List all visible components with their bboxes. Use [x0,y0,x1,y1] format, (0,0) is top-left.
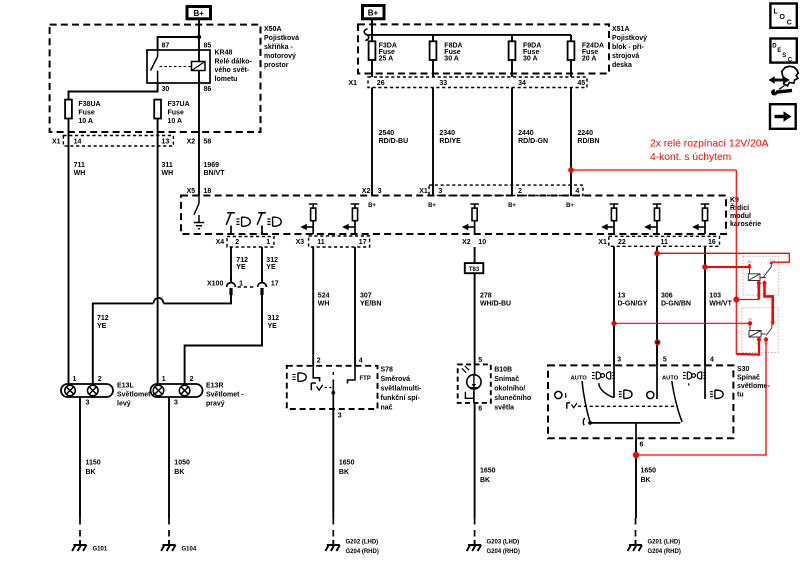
svg-text:1: 1 [162,376,166,383]
svg-text:B+: B+ [368,9,379,18]
E13L pin labels [73,376,102,406]
E13R pin labels [162,376,194,406]
wire F37UA to connector X1 pin 13 [157,119,159,147]
svg-text:58: 58 [204,139,212,146]
fuse F9DA 30A [509,41,542,62]
svg-text:BK: BK [339,469,349,476]
svg-text:G204 (RHD): G204 (RHD) [487,549,520,555]
wire 307 YE/BN from X3 17 to S78 pin 4 [354,247,356,366]
red wire 2240 tap to vertical feeder [571,169,736,171]
wire 2540 RD/D-BU [371,88,373,197]
fuse F38UA [65,100,100,125]
svg-text:311: 311 [162,162,173,169]
S30 left OFF position O [555,391,562,398]
relay KX2 internals [748,318,776,346]
svg-text:4-kont. s úchytem: 4-kont. s úchytem [650,152,731,163]
svg-text:6: 6 [640,442,644,449]
svg-text:F38UA: F38UA [78,101,100,108]
S30 wire from pin 3 down [613,365,615,397]
wire 311 WH [157,146,159,384]
svg-text:B+: B+ [508,203,516,209]
multifunction switch S78 enclosure [287,366,378,409]
wire 1050 BK from E13R [168,397,170,518]
relay KX1 housing [743,256,779,295]
svg-text:KR48: KR48 [215,50,233,57]
svg-text:slunečního: slunečního [494,395,531,402]
K9 top pin labels X2 3 / X1 3 / 2 / 4 [362,188,580,195]
svg-text:86: 86 [204,86,212,93]
svg-text:3: 3 [378,188,382,195]
svg-text:2: 2 [317,358,321,365]
S30 left main blade (AUTO) [582,381,590,422]
wire pin 86 down [198,71,200,147]
svg-text:Fuse: Fuse [168,109,184,116]
dashed link between X100 halves [238,286,257,288]
svg-text:levý: levý [117,401,131,408]
wire B+ to bus [371,19,373,35]
ground symbol inside K9 [194,215,204,229]
svg-text:2: 2 [98,376,102,383]
svg-text:22: 22 [618,239,626,246]
wire 2440 RD/D-GN [511,88,513,197]
wire 524 WH from X3 11 to S78 pin 2 [312,247,314,366]
svg-text:312: 312 [266,257,278,264]
svg-text:F37UA: F37UA [168,101,190,108]
svg-text:Směrová: Směrová [381,376,411,383]
svg-text:FTP: FTP [360,376,371,382]
S30 wire from pin 5 down [656,365,658,399]
svg-text:25 A: 25 A [379,56,394,63]
svg-text:BK: BK [480,477,490,484]
headlamp E13L [61,384,113,397]
svg-text:WH/VT: WH/VT [709,301,732,308]
svg-text:S78: S78 [381,367,394,374]
relay housing boxes (gray dotted) [742,256,779,352]
red feeder to relay KX1 pin 85 [736,299,759,301]
red stub relay KX1 87a [770,262,773,264]
svg-text:1: 1 [73,376,77,383]
wire 306 D-GN/BN from X1 11 to S30 pin 5 [656,247,658,366]
fuse F3DA 25A [369,41,397,62]
coil KX2 [749,331,761,338]
red link relay KX1 30 to relay KX2 87a [765,283,773,325]
connector X1 of X51A [368,77,587,88]
headlamp E13R [151,384,203,397]
S30 right OFF position O [647,391,654,398]
svg-text:RD/BN: RD/BN [577,138,599,145]
red stub relay KX1 pin 85 [757,283,760,300]
svg-text:B+: B+ [566,203,574,209]
svg-text:X100: X100 [207,281,223,288]
svg-text:G202 (LHD): G202 (LHD) [346,540,379,546]
svg-text:2x relé rozpínací 12V/20A: 2x relé rozpínací 12V/20A [650,139,769,150]
K9 bottom pin labels [216,239,716,246]
svg-text:Relé dálko-: Relé dálko- [215,58,253,65]
svg-text:10 A: 10 A [78,118,93,125]
svg-text:2340: 2340 [439,130,455,137]
wire 2340 RD/YE [432,88,434,197]
svg-text:16: 16 [708,239,716,246]
svg-text:3: 3 [438,188,442,195]
label S78 [381,367,423,412]
K9 output driver X3 17 [342,204,359,234]
svg-text:okolního/: okolního/ [494,386,525,393]
svg-text:C: C [788,58,793,64]
svg-text:D-GN/BN: D-GN/BN [661,301,691,308]
note text 2x relay (red) [650,139,769,164]
svg-text:Spínač: Spínač [737,375,760,382]
svg-text:G101: G101 [93,547,108,553]
label S30 [737,366,770,399]
svg-text:O: O [780,14,786,21]
red wire 306 tap to relay KX1 87a [657,253,789,262]
svg-text:světla/multi-: světla/multi- [381,386,423,393]
svg-text:G204 (RHD): G204 (RHD) [346,549,379,555]
wire 1969 BN/VT [198,146,200,196]
red tap on wire 103 [702,264,708,270]
label X50A [264,26,299,69]
wire 2240 RD/BN [570,88,572,197]
svg-text:524: 524 [318,293,330,300]
S30 right parking lamp icon [683,372,706,386]
svg-text:X2: X2 [362,188,371,195]
svg-text:BK: BK [86,469,96,476]
connector box at K9 top pins [429,185,583,195]
S30 output bus to pin 6 [590,422,680,424]
svg-text:lometu: lometu [215,76,238,83]
svg-text:X5: X5 [187,188,196,195]
light sensor B10B enclosure [458,364,491,403]
wire 712 YE routing to E13L pin 2 (with hop over 311) [93,295,231,384]
svg-text:BK: BK [174,469,184,476]
battery feed B+ (middle) [363,6,385,19]
tiny pin numbers KX1 [748,259,776,289]
svg-text:13: 13 [618,293,626,300]
ground G203/G204 [467,518,520,555]
svg-text:1: 1 [266,239,270,246]
toolbar icon DESC [770,39,796,64]
headlight icon in S78 [293,373,307,382]
body control module K9 enclosure [181,196,726,235]
svg-text:5: 5 [478,357,482,364]
svg-text:3: 3 [617,357,621,364]
wire 1150 BK from E13L [79,397,81,518]
svg-text:S30: S30 [737,366,750,373]
S30 left bottom contact arc [583,418,585,426]
svg-text:YE: YE [268,323,278,330]
inline connector T83 [465,263,484,273]
svg-text:B+: B+ [193,9,204,18]
svg-text:30: 30 [162,86,170,93]
svg-text:K9: K9 [730,197,739,204]
label X51A [612,26,647,69]
S30 wire from pin 4 down [704,365,706,399]
wire F38UA to connector X1 pin 14 [68,119,70,147]
svg-text:17: 17 [359,239,367,246]
svg-text:YE: YE [236,264,246,271]
wire 312 YE from X4 1 to X100 17 [261,247,263,282]
svg-text:G104: G104 [182,547,197,553]
svg-text:3: 3 [338,413,342,420]
red tap node on wire 306 lower [655,339,661,345]
svg-text:T83: T83 [469,267,480,273]
S78 FTP contact from pin 4 [348,366,356,384]
tiny pin numbers KX2 [748,318,776,346]
red stub relay KX2 pin 85 to feeder [736,340,759,355]
svg-text:33: 33 [439,80,447,87]
S30 top pin labels 3 5 4 [617,357,714,364]
svg-text:30 A: 30 A [444,56,459,63]
wire 1650 BK from S30 pin 6 [635,438,637,518]
svg-text:1650: 1650 [480,468,496,475]
K9 output driver X1 16 [692,204,709,234]
S78 stalk switch symbol [311,383,316,390]
contact KX1 [760,263,771,279]
battery feed B+ (left) [187,7,211,19]
fuse box X50A enclosure [50,25,261,132]
wire 278 continues to B10B pin 5 [474,273,476,364]
svg-text:motorový: motorový [264,53,296,60]
B10B photo sensor symbol [462,364,481,403]
svg-text:L: L [774,9,779,16]
dashed actuation link [160,66,192,68]
label E13R [206,383,244,408]
svg-text:D-GN/GY: D-GN/GY [618,301,648,308]
bus wire inside X51A [372,35,571,41]
svg-text:BK: BK [641,477,651,484]
wire 103 WH/VT from X1 16 to S30 pin 4 [704,247,706,366]
svg-text:2: 2 [518,188,522,195]
ground G104 [161,518,197,553]
svg-text:G204 (RHD): G204 (RHD) [648,549,681,555]
wire 312 YE routing to E13R pin 2 [185,295,262,384]
svg-text:17: 17 [271,281,279,288]
svg-text:1969: 1969 [204,162,220,169]
svg-text:světla: světla [494,405,514,412]
svg-text:YE/BN: YE/BN [360,301,381,308]
svg-text:E: E [777,48,781,54]
red tap on wire 13 [611,321,616,326]
S30 left flash symbol [567,403,570,409]
svg-text:BN/VT: BN/VT [204,170,226,177]
svg-text:30 A: 30 A [523,56,538,63]
svg-text:712: 712 [236,257,248,264]
svg-text:X4: X4 [216,239,225,246]
S30 right headlight icon [710,390,723,399]
relay KR48 box [147,50,210,83]
svg-text:S: S [782,53,786,59]
svg-text:WH: WH [318,301,330,308]
pin stubs KX1 [750,264,765,284]
svg-text:278: 278 [480,293,492,300]
svg-text:1050: 1050 [174,460,190,467]
svg-text:deska: deska [612,62,632,69]
svg-text:5: 5 [663,357,667,364]
svg-text:X1: X1 [52,139,61,146]
label E13L [117,383,155,408]
wire 1650 BK from B10B [474,403,476,518]
relay KX1 internals [748,259,776,289]
svg-text:711: 711 [74,162,85,169]
svg-text:C: C [787,20,792,27]
coil KX1 [748,274,760,281]
svg-text:Světlomet -: Světlomet - [206,392,244,399]
svg-text:306: 306 [661,293,673,300]
svg-text:B+: B+ [428,203,436,209]
added relay wiring (red overlay) [568,167,789,458]
svg-text:Snímač: Snímač [494,376,519,383]
wire 1650 BK from S78 [332,409,334,518]
svg-text:2440: 2440 [518,130,534,137]
svg-text:tu: tu [737,392,744,399]
svg-text:6: 6 [478,406,482,413]
fuse F8DA 30A [430,41,463,62]
svg-text:blok - pří-: blok - pří- [612,44,645,51]
svg-text:YE: YE [266,264,276,271]
svg-text:1650: 1650 [641,468,657,475]
svg-text:712: 712 [97,315,109,322]
svg-text:světlome-: světlome- [737,383,770,390]
S30 mechanical coupling dashed [578,405,678,407]
pin X5 18 labels [187,188,212,195]
svg-text:4: 4 [359,358,363,365]
toolbar icon next-page arrow [770,104,796,129]
label B10B [494,367,531,412]
S30 left headlight icon [619,390,632,399]
svg-text:strojová: strojová [612,53,639,60]
svg-text:Fuse: Fuse [78,109,94,116]
svg-text:11: 11 [661,239,669,246]
svg-text:312: 312 [268,315,280,322]
red wire 103 tap to relay KX1 coil 86 [705,266,750,268]
svg-text:WH: WH [74,170,86,177]
X100 labels [207,281,279,288]
svg-text:4: 4 [710,357,714,364]
svg-text:11: 11 [317,239,325,246]
K9 headlamp driver right (to X4 1) [257,213,266,234]
svg-text:E13R: E13R [206,383,224,390]
svg-text:G201 (LHD): G201 (LHD) [648,540,681,546]
svg-text:prostor: prostor [264,62,289,69]
svg-text:18: 18 [204,188,212,195]
relay coil [192,62,206,71]
connector X1 box [609,236,720,246]
ground G101 [72,518,108,553]
svg-text:10: 10 [478,239,486,246]
label K9 [730,197,761,228]
svg-text:X3: X3 [296,239,305,246]
contact KX2 [761,325,772,336]
svg-text:86: 86 [748,260,752,264]
wire 711 WH [68,146,70,384]
fuse output stubs to connector X1 [372,60,571,77]
pin stubs KX2 [750,321,766,340]
svg-text:103: 103 [709,293,721,300]
red node at S30 pin 6 lead [633,452,639,458]
red wire 13 tap to relay KX2 coil 86 [614,322,750,324]
svg-text:X2: X2 [187,139,196,146]
svg-text:Pojistková: Pojistková [264,35,299,42]
headlamp switch S30 enclosure [548,365,733,438]
wire B+ to relay KR48 coil pin 85 [198,19,200,62]
svg-text:3: 3 [86,400,90,407]
svg-text:307: 307 [360,293,372,300]
K9 output driver X2 10 [462,204,479,234]
svg-text:87: 87 [162,43,170,50]
svg-text:karosérie: karosérie [730,221,761,228]
K9 output driver X1 22 [601,204,618,234]
red stub relay KX1 86 [748,265,751,269]
svg-text:1650: 1650 [339,460,355,467]
S30 left parking blade [599,383,614,398]
toolbar icon replace-part (arrows + wrench) [768,66,798,95]
svg-text:YE: YE [97,323,107,330]
red tap on wire 2240 [568,167,574,173]
svg-text:AUTO: AUTO [571,375,588,381]
svg-text:10 A: 10 A [168,118,183,125]
S30 left parking lamp icon [592,372,615,379]
headlight icon in K9 right [267,217,281,226]
wire pin 30 to fuses bus [69,83,158,100]
svg-text:X51A: X51A [612,26,630,33]
svg-text:RD/YE: RD/YE [439,138,461,145]
K9 headlamp driver left (to X4 2) [226,213,235,234]
fuse F37UA [154,100,189,125]
svg-text:2540: 2540 [379,130,395,137]
svg-text:26: 26 [377,80,385,87]
fuse block X51A enclosure [358,24,609,73]
svg-text:funkční spí-: funkční spí- [381,395,421,402]
red tap on wire 306 below pin 11 [654,251,660,257]
svg-text:2: 2 [190,376,194,383]
inline connector X100 pin 17 [258,278,267,295]
svg-text:X50A: X50A [264,26,282,33]
K9 output driver X3 11 [300,204,317,234]
wire branch to pin 87 [158,37,199,50]
svg-text:1: 1 [239,281,243,288]
svg-text:RD/D-BU: RD/D-BU [379,138,409,145]
svg-text:B+: B+ [368,203,376,209]
svg-text:34: 34 [518,80,526,87]
svg-text:X1: X1 [419,188,428,195]
svg-text:modul: modul [730,213,751,220]
svg-text:Pojistkový: Pojistkový [612,35,647,42]
svg-text:X1: X1 [598,239,607,246]
label KR48 [215,50,253,83]
svg-text:2240: 2240 [577,130,593,137]
svg-text:4: 4 [575,188,579,195]
svg-text:B10B: B10B [494,367,512,374]
ground G202/G204 [325,518,378,555]
svg-text:X2: X2 [462,239,471,246]
headlight icon in K9 left [236,217,250,226]
node junction at 85 branch [197,35,201,39]
ground G201/G204 [628,518,681,555]
wire 712 YE from X4 2 to X100 1 [230,247,232,282]
svg-text:20 A: 20 A [582,56,597,63]
svg-text:14: 14 [74,139,82,146]
S78 pin labels 2 and 4 [317,358,363,365]
svg-text:WH: WH [162,170,174,177]
S30 right main blade [672,381,682,422]
svg-text:skříňka -: skříňka - [264,44,293,51]
svg-text:3: 3 [174,400,178,407]
red wire relay KX2 30 to S30 ground lead [636,340,766,456]
svg-text:13: 13 [162,139,170,146]
svg-text:Řídící: Řídící [730,203,750,212]
relay KX2 housing [742,308,778,353]
connector X1 of X50A [63,136,173,147]
